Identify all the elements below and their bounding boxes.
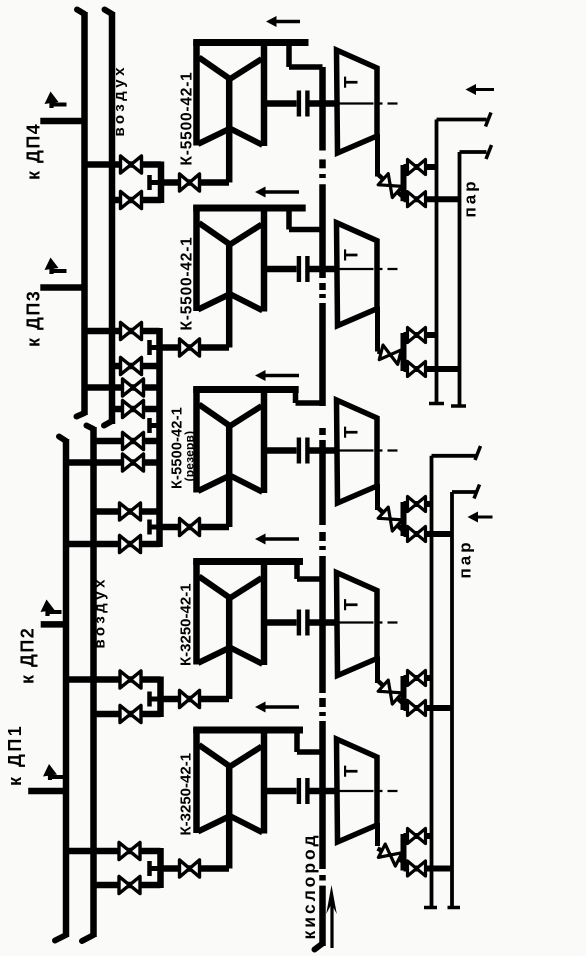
svg-text:К-5500-42-1: К-5500-42-1 (179, 71, 196, 165)
svg-text:Т: Т (342, 765, 363, 777)
svg-text:К-3250-42-1: К-3250-42-1 (178, 583, 195, 666)
svg-text:кислород: кислород (299, 832, 319, 939)
svg-text:к ДП1: к ДП1 (5, 724, 25, 786)
svg-text:Т: Т (342, 599, 363, 611)
svg-text:(резерв): (резерв) (183, 431, 197, 482)
svg-text:К-5500-42-1: К-5500-42-1 (179, 236, 196, 330)
svg-text:пар: пар (461, 178, 480, 217)
svg-text:воздух: воздух (111, 64, 128, 136)
svg-text:пар: пар (456, 539, 475, 578)
svg-text:к ДП4: к ДП4 (24, 123, 44, 180)
svg-text:к ДП3: к ДП3 (24, 290, 44, 347)
svg-text:Т: Т (342, 426, 363, 438)
svg-text:к ДП2: к ДП2 (18, 627, 38, 684)
svg-text:Т: Т (342, 249, 363, 261)
svg-text:воздух: воздух (92, 576, 109, 648)
svg-text:К-3250-42-1: К-3250-42-1 (178, 753, 195, 836)
svg-text:Т: Т (342, 76, 363, 88)
